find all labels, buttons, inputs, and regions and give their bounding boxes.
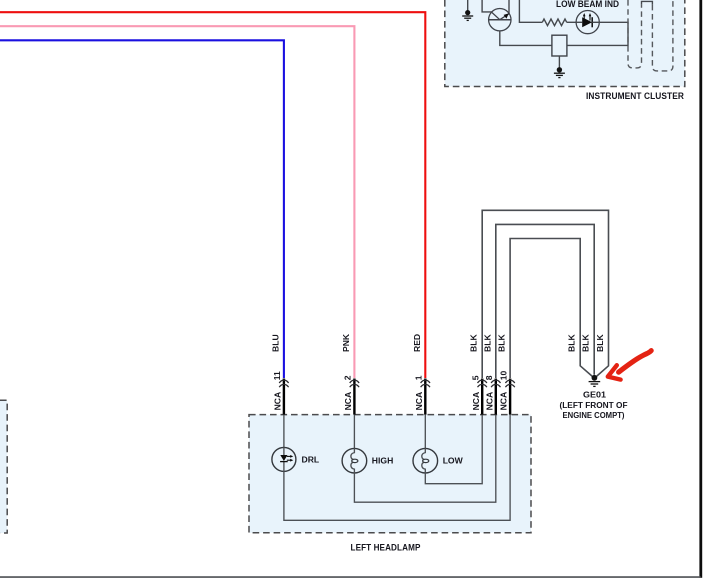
instrument cluster box fill	[445, 0, 685, 87]
left headlamp box dashed border	[249, 415, 531, 533]
pin 5 chevrons	[478, 380, 487, 387]
connector pocket bridge pin	[642, 1, 653, 4]
transistor Q1 base wire to relay K1	[500, 31, 552, 46]
svg-text:BLK: BLK	[581, 334, 591, 352]
relay K1 box	[552, 35, 567, 56]
wire LED to connector U-turn	[567, 22, 628, 45]
pin 1 black segment	[424, 379, 426, 415]
svg-text:HIGH: HIGH	[372, 456, 393, 466]
wire from top to resistor R1	[519, 0, 542, 22]
svg-text:LOW: LOW	[443, 456, 464, 466]
ground G100 wire (cluster left)	[467, 0, 469, 11]
svg-text:2: 2	[343, 375, 353, 380]
svg-text:BLK: BLK	[595, 334, 605, 352]
left edge clipped box fill	[0, 400, 7, 533]
BLK ground run inner (pin 10 to GE01)	[510, 239, 592, 379]
svg-text:GE01: GE01	[583, 389, 606, 399]
BLK ground run middle (pin 8 to GE01)	[496, 224, 594, 378]
svg-text:INSTRUMENT CLUSTER: INSTRUMENT CLUSTER	[586, 91, 684, 102]
wire HIGH bulb to row2	[354, 415, 495, 503]
svg-text:5: 5	[470, 375, 480, 380]
transistor Q1	[489, 9, 511, 31]
page right border line	[699, 0, 702, 578]
svg-text:NCA: NCA	[499, 392, 509, 411]
BLK ground run outer (pin 5 to GE01)	[482, 210, 608, 378]
svg-text:8: 8	[484, 375, 494, 380]
bulb LOW	[413, 448, 438, 473]
red annotation arrow	[608, 351, 651, 380]
resistor R1	[542, 19, 566, 26]
ground symbol (relay)	[554, 67, 565, 77]
connector pocket dashed 1	[628, 0, 642, 68]
pin 10 chevrons	[505, 380, 514, 387]
svg-text:BLK: BLK	[469, 334, 479, 352]
ground symbol (cluster left)	[462, 10, 473, 20]
wire resistor to LED	[567, 21, 577, 23]
pin 11 chevrons	[279, 380, 288, 387]
svg-text:NCA: NCA	[343, 392, 353, 411]
left headlamp box fill	[249, 415, 531, 533]
svg-text:BLK: BLK	[567, 334, 577, 352]
pin 5 black segment	[481, 379, 483, 415]
LED arrows	[584, 14, 590, 20]
svg-text:LOW BEAM IND: LOW BEAM IND	[556, 0, 619, 9]
wire DRL bulb to row3	[284, 415, 510, 521]
svg-text:DRL: DRL	[302, 454, 320, 464]
wire BLU horizontal+vertical (pin 11)	[0, 40, 284, 378]
connector pocket dashed 2	[652, 0, 673, 71]
pin 2 black segment	[353, 379, 355, 415]
instrument cluster box dashed border	[445, 0, 685, 87]
relay K1 ground wire	[558, 56, 560, 68]
svg-text:10: 10	[498, 371, 508, 381]
svg-text:BLK: BLK	[497, 334, 507, 352]
svg-text:1: 1	[414, 375, 424, 380]
svg-text:NCA: NCA	[484, 392, 494, 411]
svg-text:PNK: PNK	[341, 333, 351, 352]
svg-text:NCA: NCA	[471, 392, 481, 411]
transistor Q1 collector wire	[482, 0, 491, 12]
transistor Q1 emitter wire	[508, 0, 510, 14]
pin 11 black segment	[283, 379, 285, 415]
pin 8 chevrons	[491, 380, 500, 387]
svg-text:RED: RED	[412, 334, 422, 352]
wire pin1 to LOW bulb	[424, 415, 426, 449]
bulb HIGH	[342, 448, 367, 473]
wire RED horizontal+vertical (pin 1)	[0, 12, 425, 378]
ground GE01 symbol	[589, 375, 601, 387]
pin 8 black segment	[495, 379, 497, 415]
svg-text:(LEFT FRONT OF: (LEFT FRONT OF	[560, 400, 628, 410]
svg-text:BLK: BLK	[482, 334, 492, 352]
svg-text:NCA: NCA	[414, 392, 424, 411]
svg-text:NCA: NCA	[273, 392, 283, 411]
pin 2 chevrons	[350, 380, 359, 387]
pin 10 black segment	[509, 379, 511, 415]
svg-text:BLU: BLU	[270, 334, 280, 352]
wire LOW bulb to row1	[425, 415, 482, 484]
bulb DRL	[272, 447, 296, 471]
svg-text:LEFT HEADLAMP: LEFT HEADLAMP	[351, 543, 421, 554]
wire pin2 to HIGH bulb	[353, 415, 355, 449]
pin 1 chevrons	[421, 380, 430, 387]
wire PNK horizontal+vertical (pin 2)	[0, 26, 354, 378]
page bottom border line	[0, 576, 701, 578]
svg-text:ENGINE COMPT): ENGINE COMPT)	[563, 410, 625, 420]
wire pin11 to DRL bulb	[283, 415, 285, 448]
left edge clipped box dashed border	[0, 400, 7, 533]
LED D1 LOW BEAM IND	[576, 11, 599, 34]
svg-text:11: 11	[272, 371, 282, 380]
